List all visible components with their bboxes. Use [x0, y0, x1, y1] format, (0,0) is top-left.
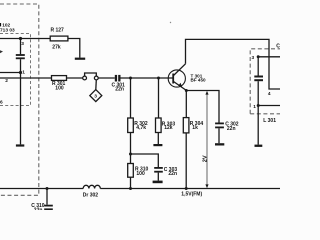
node emitter junction — [185, 89, 188, 92]
wire emitter node to C302 — [186, 91, 219, 123]
node R304 bus junction — [185, 187, 188, 190]
svg-text:3: 3 — [252, 55, 255, 61]
capacitor C301 (series plates) — [115, 75, 121, 82]
wire pin1 stub — [0, 72, 21, 74]
svg-text:Dr 302: Dr 302 — [83, 192, 99, 198]
svg-text:27k: 27k — [52, 44, 61, 50]
svg-text:4: 4 — [268, 91, 271, 97]
capacitor C303 (plates) — [154, 167, 163, 173]
svg-text:713 03: 713 03 — [0, 27, 15, 33]
wire emitter node to R304 — [185, 91, 187, 118]
wire R302 to mid node — [130, 133, 132, 155]
voltage arrow 2V (double headed) — [206, 93, 208, 186]
inner shielded compartment (dashed outline) — [0, 34, 31, 106]
resistor R302 — [128, 118, 134, 133]
svg-text:100: 100 — [55, 85, 64, 91]
svg-text:4,7k: 4,7k — [136, 125, 146, 131]
ground L301 pin1 — [255, 145, 263, 147]
resistor R127 — [50, 36, 68, 41]
L301 pin1 node — [257, 104, 260, 107]
wire C302 to ground — [218, 128, 220, 143]
ground C302 — [215, 143, 224, 145]
transistor collector lead — [174, 64, 186, 76]
inductor Dr302 (choke humps) — [83, 185, 100, 188]
resistor R304 — [183, 118, 189, 133]
node C310 bus junction — [46, 187, 49, 190]
resistor R303 — [156, 118, 162, 133]
wire pin2 main signal — [0, 77, 52, 79]
transistor T301 circle — [168, 70, 185, 87]
node R310 bus junction — [129, 187, 132, 190]
wire pin1 node down to internal ground — [20, 73, 22, 145]
wire R304 to bus — [185, 133, 187, 189]
wire pin1 down to ground — [257, 106, 259, 145]
L301 filter module box (dashed outline) — [250, 49, 280, 114]
svg-text:2: 2 — [5, 78, 8, 84]
node R302/R310 junction — [129, 153, 132, 156]
svg-text:1k: 1k — [192, 125, 198, 131]
wire cap to pin1 node — [257, 81, 259, 105]
svg-text:L 301: L 301 — [263, 118, 276, 124]
wire test point drop — [95, 80, 98, 90]
connector terminal right (open circle) — [94, 76, 98, 80]
svg-text:2V: 2V — [202, 155, 208, 162]
ground tuner internal — [16, 144, 24, 146]
wire capacitor branch pin3 — [20, 39, 22, 55]
bus wire left segment — [0, 188, 83, 190]
ground R127 — [75, 58, 85, 60]
ground C303 — [153, 181, 163, 184]
wire R310 to bus — [130, 177, 132, 188]
node tuner pin3 junction — [19, 37, 22, 40]
wire C301 to base node — [121, 77, 174, 79]
svg-text:22n: 22n — [168, 171, 177, 177]
svg-text:C: C — [276, 43, 280, 49]
svg-text:6: 6 — [0, 99, 3, 105]
svg-text:R 127: R 127 — [51, 27, 65, 33]
cut-off glyph before 102 — [0, 23, 1, 26]
scan speck — [170, 22, 171, 23]
arrowhead up at emitter wire — [205, 91, 208, 95]
svg-text:22n: 22n — [227, 126, 236, 132]
capacitor L301 internal (plates) — [254, 76, 263, 82]
wire mid node to R310 — [130, 154, 132, 164]
wire pin3 down to internal cap — [257, 57, 259, 76]
ground R303 — [153, 144, 162, 146]
wire pin3 tuner output — [0, 38, 50, 40]
transistor emitter arrowhead — [178, 83, 182, 87]
svg-text:3: 3 — [94, 94, 97, 100]
arrowhead down at bus — [205, 184, 208, 188]
wire cap to pin1 node — [20, 59, 22, 72]
transistor emitter lead — [174, 82, 187, 91]
wire R127 to ground — [68, 39, 80, 58]
svg-text:1: 1 — [253, 104, 256, 110]
wire collector up and over to L301 pin4 — [186, 39, 281, 89]
node tuner pin1 junction — [19, 71, 22, 74]
node R303 top junction — [157, 77, 160, 80]
L301 box bottom dashed edge — [250, 113, 280, 115]
svg-text:22n: 22n — [34, 207, 43, 210]
wire node to R303 — [158, 78, 160, 118]
wire mid node to C303 — [131, 154, 159, 167]
svg-text:22n: 22n — [115, 87, 124, 93]
resistor R310 — [128, 164, 134, 178]
L301 pin3 node — [257, 55, 260, 58]
wire node to R302 — [130, 78, 132, 118]
wire bus to C310 — [46, 189, 48, 205]
wire connector to C301 — [98, 77, 115, 79]
svg-text:100: 100 — [136, 171, 145, 177]
svg-text:BF 450: BF 450 — [191, 77, 207, 82]
svg-text:12k: 12k — [164, 125, 173, 131]
capacitor C310 (plates) — [44, 205, 53, 211]
capacitor C302 (plates) — [215, 123, 224, 129]
tuner module box (dashed outline) — [0, 4, 39, 195]
svg-text:1: 1 — [22, 70, 25, 76]
wire C303 to ground — [157, 173, 159, 181]
wire L301 pin3 out right — [258, 56, 280, 58]
wire R301 to connector — [67, 77, 83, 79]
bus wire right segment — [100, 188, 280, 190]
svg-text:1,5V(FM): 1,5V(FM) — [181, 191, 202, 197]
connector jumper bridge — [85, 73, 97, 76]
test point diamond 3 — [90, 90, 102, 102]
transistor base bar — [172, 74, 174, 84]
wire L301 pin1 out right — [258, 105, 280, 107]
cut-off glyph at left edge — [0, 50, 3, 53]
connector terminal left (open circle) — [83, 76, 87, 80]
capacitor tuner internal (plates) — [16, 54, 25, 59]
wire R303 to ground — [157, 133, 159, 145]
resistor R301 — [52, 76, 67, 81]
node R302 top junction — [129, 77, 132, 80]
svg-text:3: 3 — [21, 41, 24, 47]
